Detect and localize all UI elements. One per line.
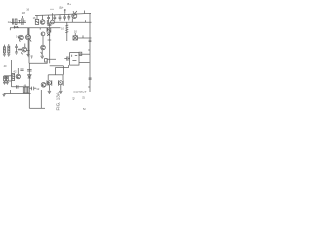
capacitor C12 series (17, 85, 19, 88)
wire stub below crystal (14, 26, 18, 29)
capacitor C4 hanging (63, 15, 66, 21)
diode box D1 with X (73, 33, 77, 40)
ground R5 (3, 81, 6, 85)
wire center jog (29, 59, 56, 63)
block U1 inner marks (72, 55, 78, 61)
node ticks on right bus (89, 40, 92, 41)
node tick on right bus top (84, 11, 86, 14)
transistor Q4 (41, 28, 48, 36)
wire mid vertical (27, 40, 29, 53)
node tick right bus lower (88, 86, 90, 88)
wire block to bus lower (79, 61, 90, 63)
capacitor C10 row3 (15, 44, 18, 51)
node tick rail2 right (85, 20, 87, 22)
svg-text:OUTPUT: OUTPUT (74, 90, 87, 94)
svg-text:B+: B+ (67, 2, 71, 6)
svg-text:40: 40 (4, 64, 7, 68)
svg-text:B+: B+ (60, 6, 64, 10)
node junction dot (17, 26, 19, 28)
wire faint dash top (50, 8, 54, 10)
wire bottom rail (4, 93, 31, 95)
wire R1 top lead (3, 45, 5, 47)
transistor Q7 hanging (51, 15, 55, 24)
transistor Q8 top right (72, 11, 77, 22)
node tick mid (39, 28, 41, 30)
wire top rail B+ (35, 13, 91, 15)
resistor R4 (12, 74, 15, 81)
wire pair feed (48, 67, 63, 80)
resistor R1 left (3, 47, 5, 53)
svg-text:42: 42 (13, 70, 17, 74)
diode D2 on mid wire (28, 75, 32, 78)
ground mid wire (27, 53, 30, 57)
resistor R3 hatched (65, 22, 68, 41)
svg-text:10: 10 (74, 29, 78, 33)
svg-text:52: 52 (82, 96, 86, 99)
ground Q5 (40, 50, 44, 59)
resistor R5 (4, 76, 6, 81)
wire block to bus upper (79, 53, 90, 55)
transistor Q3 (21, 44, 26, 55)
wire bottom-left horizontal (12, 86, 30, 88)
node tick left end (9, 28, 11, 30)
crystal Y1 network (11, 16, 27, 25)
transistor Q10 (41, 83, 46, 88)
block U1 box (70, 53, 79, 66)
wire stub upper (4, 75, 12, 77)
svg-text:10: 10 (61, 27, 64, 31)
ground R6 (6, 81, 9, 85)
svg-text:12: 12 (36, 87, 40, 91)
svg-text:22: 22 (18, 49, 21, 52)
wire stub lower (4, 80, 12, 82)
node tick right bus mid (88, 49, 90, 51)
transistor Q2 (26, 28, 32, 42)
svg-text:FIG. 13A: FIG. 13A (55, 91, 60, 110)
capacitor plate on mid wire (27, 50, 30, 52)
oscillator pair left (47, 80, 52, 91)
wire mid vertical lower (28, 63, 30, 93)
capacitor C3 hanging (59, 15, 62, 21)
wire mid vertical long (28, 28, 30, 63)
wire bottom horizontal (29, 107, 45, 109)
node junction tick on rail (52, 13, 54, 15)
wire left vertical (11, 60, 13, 87)
ground C10 (15, 51, 18, 55)
capacitor C11 left of block (64, 56, 69, 60)
ground R1 (3, 53, 6, 57)
capacitor C1 hanging (47, 15, 50, 20)
ground bottom left (3, 94, 6, 97)
wire B+ arrow (64, 9, 65, 13)
node tick right bus low (89, 78, 92, 79)
wire Q9 collector (17, 68, 19, 74)
capacitor C9 bottom (29, 87, 36, 91)
node tick corner (20, 69, 23, 70)
transistor Q6 hanging (40, 16, 45, 25)
box small attached (79, 52, 82, 55)
wire second rail (50, 21, 92, 23)
capacitor C6 (47, 20, 48, 24)
ground pair left (48, 91, 51, 93)
wire R2 top lead (8, 44, 10, 46)
wire right vertical bus (89, 13, 91, 92)
wire mid-right horizontal (77, 35, 91, 38)
ground pair right (59, 91, 62, 93)
capacitor C7 on mid wire (27, 70, 32, 72)
svg-text:52: 52 (83, 108, 86, 111)
svg-text:42: 42 (72, 97, 76, 100)
transistor Q1 (18, 35, 23, 42)
diode stack on center column (47, 22, 51, 63)
wire left horizontal net (10, 27, 61, 29)
svg-text:16: 16 (26, 8, 29, 12)
wire block bottom lead (56, 65, 69, 67)
wire center horizontal (50, 66, 64, 75)
resistor R2 left (8, 46, 10, 53)
node tick bottom (9, 90, 11, 94)
oscillator pair right (58, 80, 63, 91)
ground R2 (7, 53, 10, 57)
transistor Q5 (41, 36, 46, 54)
capacitor C8 (47, 82, 48, 86)
capacitor C5 hanging (67, 14, 70, 20)
svg-text:18: 18 (22, 11, 26, 15)
component box hanging under rail (35, 16, 38, 25)
wire base Q3 (18, 49, 22, 51)
capacitor C2 hanging (53, 15, 56, 21)
wire bottom vertical (28, 94, 30, 109)
wire mid vertical upper (27, 28, 29, 35)
resistor R6 (6, 76, 8, 81)
box small on jog (45, 59, 48, 62)
ground small right (31, 56, 33, 58)
box component bottom (23, 87, 29, 93)
transistor Q9 (16, 74, 20, 78)
wire Q10 leg down (40, 90, 42, 108)
svg-text:12: 12 (8, 20, 12, 24)
